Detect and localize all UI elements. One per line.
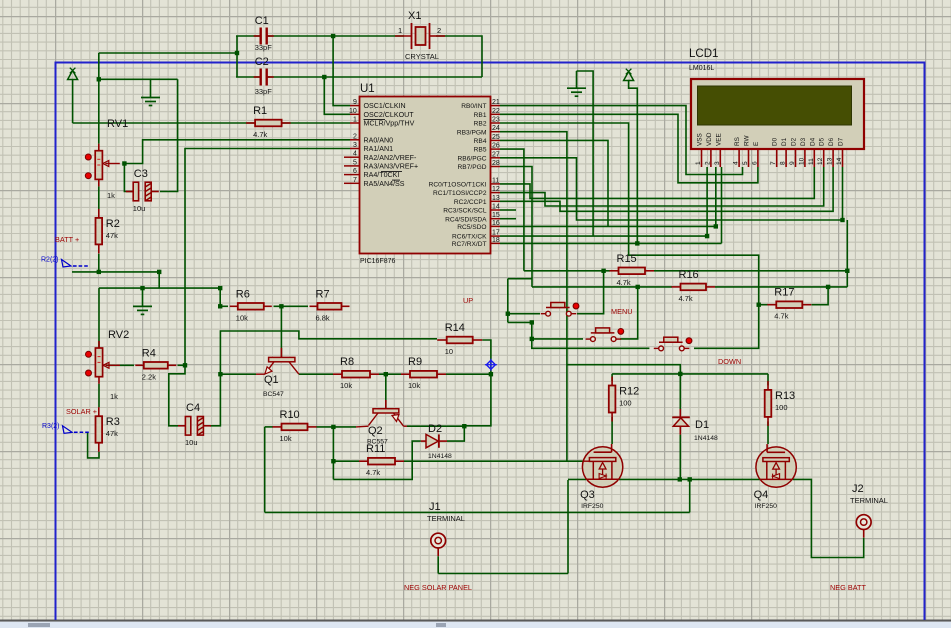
- svg-text:RB3/PGM: RB3/PGM: [457, 129, 487, 136]
- capacitor C3 (electrolytic): [126, 168, 159, 213]
- svg-text:1k: 1k: [110, 392, 118, 401]
- wire: RB6 over to LCD D7: [500, 158, 843, 220]
- wire: neg solar panel row: [438, 573, 568, 575]
- junction R11 left: [331, 459, 335, 463]
- svg-text:3: 3: [714, 161, 721, 165]
- junction RV1 wiper: [122, 161, 126, 165]
- junction R15 row on D7 column: [845, 269, 849, 273]
- wire: R16 right row: [715, 286, 847, 288]
- wire: power arrow 1 to R1 row: [72, 79, 74, 123]
- resistor R7: [310, 288, 350, 322]
- U1 pin 14 (RC3/SCK/SCL): [491, 209, 501, 211]
- svg-text:12: 12: [817, 157, 824, 165]
- svg-text:33pF: 33pF: [255, 87, 273, 96]
- U1 pin 12 (RC1/T1OSI/CCP2): [491, 192, 501, 194]
- wire: R2 bottom: [98, 254, 100, 272]
- svg-text:RB0/INT: RB0/INT: [461, 103, 486, 110]
- wire: R15 left row: [524, 270, 610, 272]
- junction LCD VSS on RC6: [705, 234, 709, 238]
- wire: gate row to D1 top: [567, 365, 680, 409]
- U1 pin 16 (RC5/SDO): [491, 225, 501, 227]
- svg-text:CRYSTAL: CRYSTAL: [405, 52, 439, 61]
- svg-text:1N4148: 1N4148: [428, 453, 452, 460]
- junction MENU row: [530, 337, 534, 341]
- wire: ground G2 stub: [576, 71, 578, 88]
- svg-text:R2: R2: [106, 218, 120, 230]
- svg-text:2.2k: 2.2k: [142, 372, 156, 381]
- svg-text:1N4148: 1N4148: [694, 435, 718, 442]
- wire: UP btn right up to R15 row: [577, 271, 604, 314]
- junction D2 node: [462, 424, 466, 428]
- wire: link to RV2 row: [158, 272, 160, 288]
- LCD display LCD1 LM016L: [689, 48, 864, 167]
- wire: J1 long row: [265, 511, 690, 513]
- junction J1 riser on rail: [688, 477, 692, 481]
- crystal X1: [395, 10, 445, 61]
- resistor R17: [767, 287, 811, 321]
- origin marker (blue diamond node): [485, 359, 497, 371]
- resistor R14: [437, 322, 482, 356]
- svg-text:VSS: VSS: [697, 133, 704, 146]
- wire: R13 bottom to Q4 drain: [767, 421, 769, 444]
- wire: Q1 collector to R8: [299, 373, 333, 375]
- wire: vertical left rail to RV1: [98, 53, 100, 144]
- resistor R10: [273, 409, 317, 443]
- svg-text:4.7k: 4.7k: [774, 312, 788, 321]
- svg-text:47k: 47k: [106, 231, 118, 240]
- svg-text:PIC16F876: PIC16F876: [360, 258, 396, 265]
- svg-text:D4: D4: [809, 137, 816, 146]
- wire: R9 right: [446, 373, 491, 375]
- svg-text:10u: 10u: [185, 438, 198, 447]
- junction emitter/C4: [218, 372, 222, 376]
- wire: UP btn left: [508, 313, 540, 315]
- wire: Q1 base vertical: [280, 306, 282, 357]
- U1 pin 17 (RC6/TX/CK): [491, 235, 501, 237]
- svg-text:4.7k: 4.7k: [253, 130, 267, 139]
- svg-text:7: 7: [770, 161, 777, 165]
- U1 pin 21 (RB0/INT): [491, 105, 501, 107]
- svg-text:UP: UP: [463, 296, 473, 305]
- svg-text:RB5: RB5: [474, 147, 487, 154]
- capacitor C1: [254, 15, 274, 52]
- wire: R11 right to Q3 gate: [404, 460, 583, 462]
- resistor R3: [96, 407, 120, 452]
- svg-text:3: 3: [353, 142, 357, 149]
- junction UP btn on R15 row: [601, 269, 605, 273]
- wire: down to R6 row: [219, 288, 221, 306]
- svg-text:47k: 47k: [106, 429, 118, 438]
- wire: D2 cathode up to node: [447, 426, 464, 441]
- transistor Q1: [256, 348, 299, 398]
- svg-text:Q4: Q4: [754, 489, 769, 501]
- svg-text:RB4: RB4: [474, 138, 487, 145]
- svg-text:10k: 10k: [280, 434, 292, 443]
- U1 pin 15 (RC4/SDI/SDA): [491, 218, 501, 220]
- wire: C2 net row: [236, 76, 482, 78]
- wire: power arrow 2 down to RC7 row: [629, 80, 638, 244]
- wire: RB5 down to R15 row: [500, 149, 524, 271]
- resistor R11: [359, 443, 404, 477]
- svg-text:18: 18: [492, 237, 500, 244]
- U1 pin 2 (RA0/AN0): [350, 139, 360, 141]
- U1 pin 11 (RC0/T1OSO/T1CKI): [491, 183, 501, 185]
- svg-text:4: 4: [353, 151, 357, 158]
- svg-text:RA1/AN1: RA1/AN1: [364, 145, 394, 153]
- svg-text:R1: R1: [253, 105, 267, 117]
- power symbol (arrow) top middle: [624, 69, 634, 81]
- svg-text:4.7k: 4.7k: [617, 278, 631, 287]
- svg-text:14: 14: [836, 157, 843, 165]
- wire: LCD VEE column: [721, 167, 723, 243]
- svg-text:1k: 1k: [107, 191, 115, 200]
- wire: to U1 pin10: [324, 77, 350, 114]
- voltage probe probe R2(2): [41, 257, 88, 268]
- wire: column down to DOWN row: [532, 322, 650, 348]
- svg-text:U1: U1: [360, 83, 375, 95]
- resistor R9: [401, 356, 446, 390]
- svg-text:TERMINAL: TERMINAL: [850, 496, 888, 505]
- svg-text:Q3: Q3: [580, 489, 595, 501]
- svg-text:R2(2): R2(2): [41, 257, 59, 264]
- wire: down to Q2 base: [385, 374, 387, 409]
- svg-text:6: 6: [353, 168, 357, 175]
- power symbol (arrow) left: [68, 68, 78, 80]
- wire: ground G2 link down to RC6 row: [577, 71, 594, 236]
- svg-text:RA5/AN4/SS: RA5/AN4/SS: [364, 180, 405, 188]
- svg-text:OSC2/CLKOUT: OSC2/CLKOUT: [364, 111, 415, 119]
- svg-text:12: 12: [492, 186, 500, 193]
- svg-text:RA2/AN2/VREF-: RA2/AN2/VREF-: [364, 154, 417, 162]
- junction MENU btn on R16 row: [636, 285, 640, 289]
- svg-text:R15: R15: [617, 253, 637, 265]
- svg-text:RC1/T1OSI/CCP2: RC1/T1OSI/CCP2: [433, 190, 487, 197]
- wire: R17 right up: [812, 287, 829, 305]
- svg-text:R8: R8: [340, 356, 354, 368]
- svg-text:RB6/PGC: RB6/PGC: [458, 155, 487, 162]
- svg-text:D3: D3: [800, 137, 807, 146]
- wire: to R13 top: [767, 374, 769, 386]
- wire: source rail down to J1 net: [567, 480, 569, 574]
- push button UP button: [541, 303, 579, 317]
- svg-text:10: 10: [349, 108, 357, 115]
- svg-text:D2: D2: [428, 423, 442, 435]
- ground symbol G2: [567, 88, 586, 96]
- resistor R16: [672, 269, 716, 303]
- svg-text:TERMINAL: TERMINAL: [427, 514, 465, 523]
- junction D1 column / R12R13 row: [678, 372, 682, 376]
- U1 pin 18 (RC7/RX/DT): [491, 242, 501, 244]
- U1 pin 27 (RB6/PGC): [491, 157, 501, 159]
- svg-text:Q2: Q2: [368, 425, 383, 437]
- wire: R3 bottom to solar probe: [88, 432, 99, 458]
- junction R6/R7 Q1 base: [279, 304, 283, 308]
- svg-text:RC7/RX/DT: RC7/RX/DT: [452, 241, 487, 248]
- svg-text:25: 25: [492, 134, 500, 141]
- wire: ground G3 stub: [142, 288, 144, 306]
- wire: DOWN btn right up to R17 row: [694, 305, 759, 349]
- svg-text:RC6/TX/CK: RC6/TX/CK: [452, 234, 487, 241]
- svg-text:8: 8: [780, 161, 787, 165]
- U1 pin 26 (RB5): [491, 148, 501, 150]
- wire: to U1 pin9: [333, 36, 350, 106]
- svg-text:4: 4: [733, 161, 740, 165]
- junction G3: [140, 286, 144, 290]
- potentiometer RV1: [85, 118, 128, 200]
- svg-text:11: 11: [492, 177, 499, 184]
- transistor Q3 IRF250: [580, 444, 623, 510]
- wire: C4 right up over to R14: [210, 331, 437, 426]
- svg-text:MCLR/Vpp/THV: MCLR/Vpp/THV: [364, 120, 415, 128]
- capacitor C4 (electrolytic): [178, 402, 211, 447]
- svg-text:LM016L: LM016L: [689, 65, 714, 72]
- svg-text:J2: J2: [852, 483, 864, 495]
- ground symbol G3: [133, 306, 152, 314]
- wire: loop top to RB7 column: [508, 278, 532, 280]
- svg-text:RC3/SCK/SCL: RC3/SCK/SCL: [443, 208, 487, 215]
- wire: RC2 to LCD D6: [500, 167, 833, 211]
- wire: R14 right down to Q2 row: [464, 340, 491, 426]
- voltage probe probe R3(2): [42, 423, 89, 434]
- svg-text:26: 26: [492, 143, 500, 150]
- svg-text:SOLAR +: SOLAR +: [66, 407, 97, 416]
- svg-text:5: 5: [742, 161, 749, 165]
- U1 pin 28 (RB7/PGD): [491, 166, 501, 168]
- svg-text:RC2/CCP1: RC2/CCP1: [454, 199, 487, 206]
- ground symbol G1: [141, 98, 160, 106]
- svg-text:RB2: RB2: [474, 121, 487, 128]
- svg-text:R17: R17: [774, 287, 794, 299]
- resistor R2: [96, 209, 120, 254]
- junction C1C2 left: [235, 51, 239, 55]
- wire: down to J1 row: [264, 427, 266, 513]
- svg-text:BC557: BC557: [367, 439, 388, 446]
- svg-text:R6: R6: [236, 288, 250, 300]
- bottom window edge: [0, 620, 951, 622]
- wire: source rail mid: [619, 478, 760, 480]
- wire: RV2 wiper to R4: [106, 364, 134, 366]
- wire: RB1 to LCD E: [500, 114, 758, 183]
- push button DOWN button: [654, 337, 692, 351]
- wire: RB2 down to R17 column: [500, 123, 759, 305]
- svg-text:BC547: BC547: [263, 391, 284, 398]
- wire: rail to ground G1 row: [99, 78, 178, 80]
- wire: node down to C4 left: [169, 365, 185, 426]
- svg-text:2: 2: [437, 26, 441, 35]
- wire: Q2 collector to D2 node: [407, 425, 464, 427]
- wire: RV1 wiper to U1 RA0: [124, 140, 350, 164]
- diode D2: [421, 423, 452, 460]
- wire: MENU btn right up to R16 row: [620, 287, 638, 339]
- U1 pin 5 (RA3/AN3/VREF+): [344, 165, 360, 167]
- wire: R11 left: [333, 460, 359, 462]
- svg-text:C3: C3: [134, 168, 148, 180]
- U1 pin 13 (RC2/CCP1): [491, 200, 501, 202]
- svg-text:Q1: Q1: [264, 374, 279, 386]
- svg-text:10: 10: [798, 157, 805, 165]
- wire: D1 bottom to rail: [679, 435, 681, 480]
- potentiometer RV2: [86, 329, 130, 401]
- wire: RB7 down to R16 row: [500, 167, 532, 287]
- U1 pin 25 (RB4): [491, 139, 501, 141]
- svg-text:NEG BATT: NEG BATT: [830, 583, 866, 592]
- wire: MENU btn left: [532, 338, 583, 340]
- svg-text:1: 1: [695, 161, 702, 165]
- wire: source rail left: [568, 478, 586, 480]
- svg-text:21: 21: [492, 99, 500, 106]
- junction R17 on R16 row: [826, 285, 830, 289]
- svg-text:D6: D6: [828, 137, 835, 146]
- svg-text:VEE: VEE: [715, 133, 722, 146]
- wire: J1 row up to source rail: [689, 479, 691, 512]
- U1 pin 6 (RA4/T0CKI): [344, 174, 360, 176]
- wire: loop vertical: [507, 279, 509, 323]
- svg-text:C1: C1: [255, 15, 269, 27]
- transistor Q2: [356, 400, 407, 446]
- wire: RV1 bottom to R2: [98, 186, 100, 209]
- wire: R15 right row: [654, 270, 847, 272]
- svg-text:R10: R10: [280, 409, 300, 421]
- wire: MCLR row through R1: [73, 122, 350, 124]
- wire: RC0 to LCD D4: [500, 167, 814, 198]
- svg-text:10: 10: [445, 347, 453, 356]
- svg-text:C4: C4: [186, 402, 200, 414]
- junction D1 on source rail: [678, 477, 682, 481]
- svg-text:13: 13: [827, 157, 834, 165]
- wire: RC7 row to LCD VEE column: [500, 242, 722, 244]
- wire: RC3 stub: [500, 209, 516, 211]
- junction R2 bottom: [97, 270, 101, 274]
- push button MENU button: [586, 328, 624, 342]
- U1 pin 22 (RB1): [491, 113, 501, 115]
- wire: R17 left: [759, 304, 768, 306]
- svg-text:D1: D1: [781, 137, 788, 146]
- U1 pin 3 (RA1/AN1): [350, 148, 360, 150]
- wire: node to Q1 emitter: [220, 373, 256, 375]
- svg-text:5: 5: [353, 159, 357, 166]
- wire: ground G1 stub: [150, 79, 152, 97]
- wire: loop to D2 anode: [333, 441, 420, 479]
- svg-text:R3(2): R3(2): [42, 423, 60, 430]
- svg-text:22: 22: [492, 108, 500, 115]
- resistor R4: [135, 347, 176, 381]
- wire: node down past R11: [332, 427, 334, 480]
- resistor R1: [246, 105, 291, 139]
- IC U1 PIC16F876: [344, 83, 500, 265]
- junction arrow2 on RC7: [635, 241, 639, 245]
- svg-text:28: 28: [492, 160, 500, 167]
- svg-text:9: 9: [353, 99, 357, 106]
- wire: RC4 stub: [500, 218, 516, 220]
- svg-text:1: 1: [398, 26, 402, 35]
- svg-text:RA3/AN3/VREF+: RA3/AN3/VREF+: [364, 163, 419, 171]
- wire: Q4 source to J2: [793, 479, 864, 557]
- wire: RV1 wiper down to C3 left: [124, 164, 133, 192]
- svg-text:100: 100: [619, 399, 632, 408]
- svg-text:D1: D1: [695, 419, 709, 431]
- svg-text:11: 11: [808, 158, 815, 165]
- svg-text:LCD1: LCD1: [689, 48, 718, 60]
- svg-text:RV1: RV1: [107, 118, 128, 130]
- svg-text:X1: X1: [408, 10, 421, 22]
- diode D1: [672, 409, 718, 442]
- wire: C1 net row: [236, 35, 404, 37]
- svg-text:RB7/PGD: RB7/PGD: [458, 164, 487, 171]
- svg-text:16: 16: [492, 220, 500, 227]
- wire: RB4 down to RC5 row: [500, 140, 608, 226]
- svg-text:10u: 10u: [133, 204, 146, 213]
- svg-text:24: 24: [492, 125, 500, 132]
- svg-text:RC5/SDO: RC5/SDO: [457, 224, 486, 231]
- svg-text:2: 2: [353, 133, 357, 140]
- svg-text:6: 6: [751, 161, 758, 165]
- svg-text:4.7k: 4.7k: [679, 294, 693, 303]
- wire: R6-R7 mid: [274, 305, 309, 307]
- svg-text:14: 14: [492, 204, 500, 211]
- U1 pin 7 (RA5/AN4/SS): [344, 182, 360, 184]
- svg-text:7: 7: [353, 177, 357, 184]
- junction C2 row: [322, 75, 326, 79]
- svg-text:RW: RW: [744, 135, 751, 146]
- wire: R12 bottom to Q3 drain: [611, 417, 613, 444]
- junction LCD VDD on RC5: [714, 224, 718, 228]
- wire: C1/C2 left to rail: [99, 52, 237, 54]
- svg-text:OSC1/CLKIN: OSC1/CLKIN: [364, 102, 406, 110]
- wire: RV2 top row: [99, 287, 220, 289]
- svg-text:13: 13: [492, 195, 500, 202]
- junction DOWN btn on R17 row: [757, 303, 761, 307]
- svg-text:RA4/T0CKI: RA4/T0CKI: [364, 171, 400, 179]
- junction R8/R9 Q2 base: [384, 372, 388, 376]
- wire: RC1 to LCD D5: [500, 167, 824, 206]
- U1 pin 1 (MCLR/Vpp/THV): [350, 122, 360, 124]
- resistor R13: [765, 381, 795, 426]
- svg-text:6.8k: 6.8k: [316, 313, 330, 322]
- wire: RB0 to LCD RS: [500, 106, 743, 175]
- svg-text:BATT +: BATT +: [55, 235, 79, 244]
- capacitor C2: [254, 56, 274, 96]
- junction UP contact: [506, 312, 510, 316]
- svg-text:RC0/T1OSO/T1CKI: RC0/T1OSO/T1CKI: [429, 182, 487, 189]
- svg-text:IRF250: IRF250: [755, 503, 778, 510]
- wire: X1 pin2 down: [436, 36, 482, 77]
- svg-text:15: 15: [492, 212, 500, 219]
- svg-text:9: 9: [789, 161, 796, 165]
- svg-text:33pF: 33pF: [255, 43, 273, 52]
- junction probe row: [157, 270, 161, 274]
- svg-text:RS: RS: [734, 137, 741, 146]
- svg-text:23: 23: [492, 117, 500, 124]
- svg-text:RB1: RB1: [474, 112, 487, 119]
- svg-text:R3: R3: [106, 416, 120, 428]
- resistor R6: [230, 288, 272, 322]
- wire: RC5 row to LCD VDD column: [500, 225, 716, 227]
- junction RV2 row: [218, 286, 222, 290]
- junction UP left jog: [530, 320, 534, 324]
- wire: BATT probe row: [72, 271, 159, 273]
- resistor R15: [610, 253, 655, 287]
- svg-text:R4: R4: [142, 347, 156, 359]
- wire: to RV2 top: [98, 288, 100, 348]
- wire: to R12 top: [611, 374, 613, 381]
- svg-text:2: 2: [704, 161, 711, 165]
- svg-text:RV2: RV2: [108, 329, 129, 341]
- wire: R10 right to Q2 emitter: [317, 426, 357, 428]
- svg-text:D2: D2: [791, 137, 798, 146]
- wire: R4 right to node: [178, 364, 186, 366]
- svg-text:NEG SOLAR PANEL: NEG SOLAR PANEL: [404, 583, 472, 592]
- svg-text:D5: D5: [819, 137, 826, 146]
